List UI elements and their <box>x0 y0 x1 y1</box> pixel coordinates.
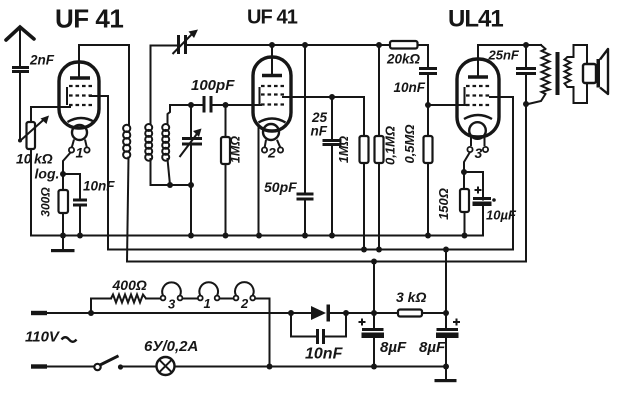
svg-text:10nF: 10nF <box>394 80 426 95</box>
svg-text:300Ω: 300Ω <box>39 187 53 217</box>
svg-text:kΩ: kΩ <box>34 151 53 167</box>
svg-text:UF 41: UF 41 <box>247 7 298 29</box>
svg-text:10: 10 <box>16 151 32 167</box>
svg-text:UF 41: UF 41 <box>55 4 123 34</box>
svg-text:2: 2 <box>267 145 276 161</box>
svg-text:0,1MΩ: 0,1MΩ <box>383 126 398 165</box>
svg-text:20kΩ: 20kΩ <box>386 52 421 67</box>
svg-text:10µF: 10µF <box>486 208 517 223</box>
svg-text:3 kΩ: 3 kΩ <box>396 289 426 305</box>
svg-text:400Ω: 400Ω <box>112 277 147 293</box>
svg-text:10nF: 10nF <box>83 179 115 194</box>
svg-text:2nF: 2nF <box>29 53 55 68</box>
svg-text:1MΩ: 1MΩ <box>229 136 243 163</box>
svg-text:1: 1 <box>204 296 211 311</box>
svg-text:8µF: 8µF <box>380 339 407 356</box>
svg-text:UL41: UL41 <box>448 6 503 33</box>
svg-text:nF: nF <box>311 124 328 139</box>
svg-text:10nF: 10nF <box>305 346 344 363</box>
svg-text:log.: log. <box>35 166 60 182</box>
svg-text:100pF: 100pF <box>191 77 235 94</box>
svg-text:50pF: 50pF <box>264 179 297 195</box>
svg-text:2: 2 <box>240 296 249 311</box>
svg-text:6У/0,2A: 6У/0,2A <box>144 338 198 355</box>
svg-text:8µF: 8µF <box>419 339 446 356</box>
svg-text:3: 3 <box>168 297 176 312</box>
svg-text:1MΩ: 1MΩ <box>337 136 351 163</box>
svg-text:0,5MΩ: 0,5MΩ <box>402 124 417 163</box>
svg-text:150Ω: 150Ω <box>436 188 451 220</box>
svg-text:25nF: 25nF <box>488 48 520 63</box>
svg-text:1: 1 <box>76 145 84 161</box>
svg-text:3: 3 <box>475 145 483 161</box>
svg-text:110V: 110V <box>25 329 61 346</box>
